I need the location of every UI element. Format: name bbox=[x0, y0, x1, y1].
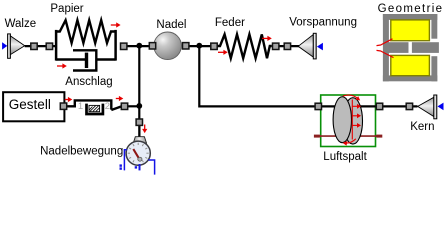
ticks bbox=[128, 143, 149, 163]
bar bbox=[8, 34, 11, 58]
svg-text:Kern: Kern bbox=[410, 121, 434, 133]
damper cylinder bbox=[73, 50, 96, 70]
wire: vertical from junction A down to sensor bbox=[138, 46, 140, 120]
junction node C bbox=[136, 103, 142, 109]
wire: Nadel to Feder bbox=[183, 45, 217, 47]
flange connector walze.out bbox=[31, 43, 37, 49]
wire: Papier right conn to Nadel bbox=[124, 45, 157, 47]
red arrow top right bbox=[111, 24, 117, 26]
elastogap Anschlag bbox=[65, 96, 124, 114]
svg-text:1: 1 bbox=[78, 101, 83, 112]
left bar bbox=[55, 30, 58, 61]
flange connector nadel.b bbox=[183, 43, 189, 49]
red flux top arc bbox=[343, 95, 359, 99]
air gap Luftspalt bbox=[314, 95, 382, 147]
spring Feder bbox=[217, 34, 271, 58]
svg-text:Luftspalt: Luftspalt bbox=[323, 151, 367, 163]
maroon stub left bbox=[314, 135, 336, 137]
spring-damper Papier bbox=[56, 20, 121, 70]
red arrow top right bbox=[262, 37, 268, 39]
blue signal left bbox=[124, 150, 126, 171]
gray yoke left bar bbox=[383, 14, 389, 81]
gray yoke right bar lower bbox=[431, 56, 437, 81]
needle bbox=[133, 149, 139, 159]
stem bbox=[138, 125, 140, 137]
blue signal right bbox=[148, 160, 154, 175]
magnet geometry icon Geometrie bbox=[377, 14, 439, 81]
red arrow right bbox=[116, 98, 120, 100]
coil top bbox=[391, 20, 430, 41]
flange connector papier.b bbox=[121, 43, 127, 49]
wire: Luftspalt to Kern apex bbox=[376, 105, 418, 107]
force source Kern bbox=[418, 95, 444, 119]
diagonal link bbox=[111, 106, 122, 110]
cone bbox=[10, 36, 24, 55]
flange connector nadel.a bbox=[149, 43, 155, 49]
wire through box bbox=[321, 105, 376, 107]
flange connector sensor.p bbox=[136, 119, 142, 125]
force source Vorspannung bbox=[298, 33, 323, 59]
spring top branch bbox=[56, 20, 116, 43]
right bar bbox=[114, 30, 117, 61]
red flux vertical bbox=[351, 100, 353, 140]
flange connector gestell.b bbox=[60, 103, 66, 109]
frame box Gestell bbox=[3, 92, 64, 121]
svg-text:Anschlag: Anschlag bbox=[65, 76, 112, 88]
wire: bottom row Gestell to Anschlag handled in anschlag; Anschlag conn to junction C bbox=[125, 105, 140, 107]
red pointer lower bbox=[377, 50, 394, 57]
svg-text:Feder: Feder bbox=[215, 17, 245, 29]
blue dot b bbox=[120, 167, 122, 169]
junction node A bbox=[136, 43, 142, 49]
U cup bbox=[87, 104, 103, 114]
core middle-right bar bbox=[412, 42, 439, 53]
armature middle-left bar bbox=[385, 42, 409, 53]
gray yoke right bar upper bbox=[431, 14, 437, 39]
flange connector anschlag.b bbox=[121, 103, 127, 109]
maroon stub right bbox=[360, 135, 382, 137]
svg-text:Vorspannung: Vorspannung bbox=[289, 16, 357, 28]
cap bbox=[133, 137, 146, 143]
svg-text:Papier: Papier bbox=[50, 3, 83, 15]
left lead + top bar + right drop bbox=[67, 100, 112, 109]
red arrow bottom left bbox=[57, 65, 63, 67]
blue dot c bbox=[135, 166, 137, 168]
svg-text:Geometrie: Geometrie bbox=[378, 3, 444, 15]
red flux arrow 1 bbox=[352, 105, 357, 107]
coil bottom bbox=[391, 55, 430, 75]
wire: vertical elbow from junction B down and right to Luftspalt bbox=[199, 46, 316, 107]
gray yoke top bar bbox=[383, 14, 437, 20]
damper piston plate bbox=[85, 53, 88, 68]
source Walze bbox=[2, 34, 25, 58]
svg-text:Walze: Walze bbox=[5, 18, 37, 30]
wire: Feder to Vorspannung apex bbox=[272, 45, 299, 47]
position sensor Nadelbewegung bbox=[120, 125, 155, 175]
svg-text:Nadel: Nadel bbox=[156, 19, 186, 31]
red flux arrow 3 bbox=[352, 124, 357, 126]
svg-text:Gestell: Gestell bbox=[9, 97, 51, 112]
flange connector kern.f bbox=[406, 103, 412, 109]
left ellipse bbox=[333, 97, 351, 143]
red flux arrow 2 bbox=[352, 115, 357, 117]
flange connector vorspannung.f bbox=[284, 43, 290, 49]
blue dot a bbox=[120, 164, 122, 166]
red arrow left bbox=[65, 99, 69, 101]
flange connector feder.b bbox=[273, 43, 279, 49]
blue stub below dial bbox=[139, 164, 141, 170]
red flux bottom arc bbox=[344, 139, 356, 143]
red arrow bottom left bbox=[218, 51, 224, 53]
red arrow down bbox=[144, 125, 146, 130]
svg-text:2: 2 bbox=[105, 101, 110, 112]
red pointer upper bbox=[377, 39, 393, 46]
flange connector luftspalt.a bbox=[315, 103, 321, 109]
dial bbox=[126, 141, 150, 165]
hub bbox=[138, 157, 142, 161]
gray yoke bottom bar bbox=[383, 75, 437, 81]
wire: main horizontal row y=46 bbox=[25, 45, 57, 47]
junction node B bbox=[196, 43, 202, 49]
hatched block bbox=[89, 105, 100, 111]
flange connector feder.a bbox=[211, 43, 217, 49]
flange connector luftspalt.b bbox=[376, 103, 382, 109]
svg-text:Nadelbewegung: Nadelbewegung bbox=[40, 146, 123, 158]
flange connector papier.a bbox=[46, 43, 52, 49]
green box bbox=[321, 95, 376, 147]
right ellipse bbox=[343, 98, 362, 144]
damper right link bbox=[96, 58, 115, 60]
mass Nadel (sphere) bbox=[154, 32, 182, 60]
damper rod bbox=[56, 58, 86, 60]
blue input arrow bbox=[2, 42, 7, 49]
